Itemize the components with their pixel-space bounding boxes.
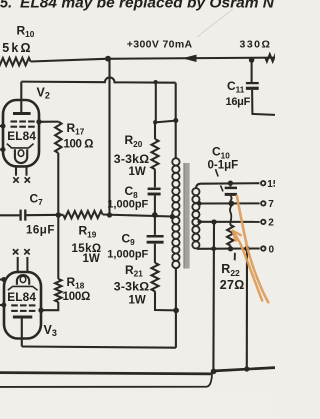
label C11 16μF [226,79,251,108]
wire earth bus 1 [0,368,275,374]
resistor R10 [0,58,31,66]
V2 anode lead [20,82,22,113]
junction 0 line / drop B [244,246,250,252]
svg-text:330Ω: 330Ω [240,38,272,50]
terminal 15 [261,179,279,190]
junction screen line / B+ feed [107,212,112,217]
wire screen line [0,215,172,217]
junction screen line / C8 C9 [152,212,158,218]
V3 cathode stub [0,302,6,307]
junction screen line / R17 R18 [56,212,62,218]
V2 grids [11,122,35,127]
terminal 7 [261,199,274,210]
resistor R21 [152,263,159,292]
scratch mark [197,9,233,37]
V2 beam plate [7,144,34,148]
V3 heater x marks [13,249,30,254]
resistor R17 [55,122,61,153]
junction drop A / 0 line [211,246,216,251]
label C7 16μF [26,192,55,237]
svg-text:1W: 1W [129,294,146,306]
valve V3 envelope [4,272,41,339]
wire [251,60,253,82]
wire [155,121,176,123]
wire 0 line [197,247,260,249]
label C9 1,000pF [107,231,148,260]
V2 heater x marks [13,177,30,182]
svg-text:EL84 may be replaced by Osram: EL84 may be replaced by Osram N [20,0,275,12]
wire [154,215,156,235]
wire 2Ω tap [200,221,260,223]
wire earth drop B [246,249,248,369]
wire [154,244,156,263]
V3 beam plate [8,286,38,290]
wire B+ feed vertical [108,59,110,215]
label R17 100Ω [64,121,94,151]
junction R22 / 0 line [228,246,233,251]
junction 2Ω tap / coil [197,220,201,224]
V3 cathode [17,275,29,285]
terminal 2 [261,218,274,229]
wire 15Ω tap [196,183,260,188]
svg-text:1W: 1W [83,253,100,265]
svg-text:100Ω: 100Ω [63,291,91,303]
transformer core [183,163,189,269]
wire [154,196,156,216]
label C8 1,000pF [107,184,148,210]
resistor R20 [152,139,159,169]
wire [154,169,156,187]
label R18 100Ω [63,275,91,303]
capacitor C8 [148,189,161,194]
wire [31,59,106,62]
wire [154,122,156,139]
svg-text:5kΩ: 5kΩ [2,41,33,55]
svg-text:EL84: EL84 [7,129,36,143]
svg-text:3-3kΩ: 3-3kΩ [114,152,149,166]
wire [39,121,58,123]
caption text [0,0,275,12]
wire +300V rail [106,58,276,59]
svg-text:2: 2 [268,218,274,229]
resistor R22 [227,204,233,249]
label R22 27Ω [220,253,245,292]
junction R20 top [153,80,157,84]
wire [155,291,176,310]
wire [155,82,157,123]
wire 7Ω tap [200,202,260,204]
valve V2 envelope [3,100,39,166]
wire [41,302,58,310]
capacitor C9 [147,236,164,242]
svg-text:1,000pF: 1,000pF [107,198,148,210]
svg-text:3-3kΩ: 3-3kΩ [114,280,149,294]
junction bus1 / drop A [211,369,217,375]
V3 grids [11,305,35,311]
V3 anode lead [21,318,23,347]
svg-text:100 Ω: 100 Ω [64,138,94,150]
V2 cathode stub [0,147,6,152]
junction C11 top [249,57,255,63]
orange pencil stroke [237,196,268,303]
orange pencil arrow [233,231,263,301]
V3 grid stub [0,277,6,282]
svg-text:0: 0 [269,244,275,255]
junction V3 screen / R18 [38,308,43,313]
V2 cathode [15,149,27,163]
svg-text:15: 15 [267,179,275,190]
wire primary bottom lead [175,268,177,348]
transformer primary winding [172,158,179,268]
label C10 0-1μF [208,145,239,192]
junction [173,118,178,123]
svg-text:+300V 70mA: +300V 70mA [127,39,193,51]
wire earth bus 2 [0,375,212,387]
transformer secondary winding [192,188,199,248]
arrowhead on +300V rail [182,55,197,62]
junction centre tap [170,214,175,219]
junction V2 screen [36,119,41,124]
svg-text:27Ω: 27Ω [220,278,245,292]
label R21 3-3kΩ 1W [114,263,149,307]
svg-text:0-1μF: 0-1μF [208,160,239,172]
resistor R18 [55,279,61,302]
label R19 15kΩ 1W [72,224,102,265]
wire [57,153,59,279]
V2 anode [13,112,31,115]
capacitor C10 [225,183,237,203]
junction 7Ω tap / coil [197,201,201,205]
junction B+ / R10 [105,56,111,62]
svg-text:5.: 5. [0,0,12,12]
wire V3 anode line [22,347,176,348]
svg-text:7: 7 [268,199,274,210]
svg-text:1,000pF: 1,000pF [107,248,148,260]
V2 heater leads [16,166,27,175]
wire [252,90,275,115]
V2 grid stub [0,123,6,128]
junction C10 top [228,180,233,185]
junction primary bottom / R21 / V3 anode [173,308,179,314]
V3 heater leads [18,257,28,273]
resistor 330Ω (cut off at edge) [266,54,278,61]
V3 anode [13,316,32,319]
wire earth drop A [212,222,215,371]
junction 2Ω tap / earth drop [211,219,216,224]
capacitor C11 [246,83,259,88]
label R10 [2,23,35,55]
resistor R19 [63,211,102,219]
label R20 3-3kΩ 1W [114,133,149,178]
svg-text:16μF: 16μF [26,224,55,236]
capacitor C7 [21,210,26,221]
wire V2 anode line [21,77,175,82]
terminal 0 [261,244,274,255]
svg-text:EL84: EL84 [7,290,36,304]
svg-text:16μF: 16μF [226,96,251,108]
wire primary top lead [175,83,177,159]
svg-text:1W: 1W [129,166,146,178]
junction C10 bottom / R22 [228,201,234,207]
junction bus1 / drop B [244,366,249,371]
